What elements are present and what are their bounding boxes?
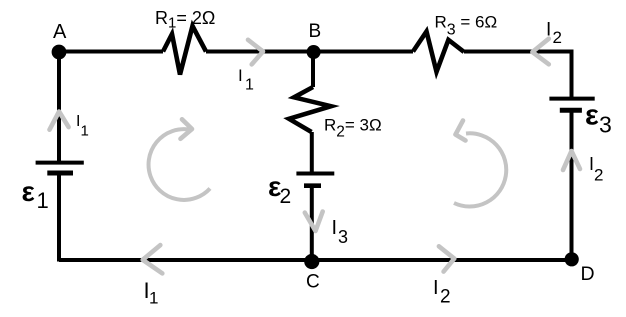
svg-text:C: C (306, 272, 320, 293)
battery E1 long plate (36, 161, 84, 165)
loop arrow left (clockwise arc) (149, 129, 210, 200)
current arrow I3 middle (down-pointing chevron) (305, 212, 323, 232)
current arrow I2 right side (up-pointing chevron) (563, 151, 580, 170)
svg-text:I: I (238, 66, 243, 85)
svg-text:R1= 2Ω: R1= 2Ω (155, 8, 215, 32)
svg-text:I: I (332, 217, 338, 239)
svg-text:A: A (53, 21, 67, 43)
resistor R1 (163, 26, 206, 75)
svg-text:2: 2 (553, 28, 562, 47)
svg-text:R2= 3Ω: R2= 3Ω (324, 116, 382, 141)
svg-text:B: B (309, 21, 322, 42)
svg-text:2: 2 (594, 166, 603, 185)
wire right vertical upper (570, 50, 574, 100)
wire B down to R2 (311, 52, 315, 88)
node C (304, 254, 319, 269)
battery E2 short plate (304, 183, 321, 188)
resistor R2 (289, 87, 331, 132)
svg-text:1: 1 (245, 77, 254, 94)
wire R1 to B (206, 50, 314, 54)
resistor R3 (413, 32, 464, 72)
svg-text:D: D (581, 263, 595, 285)
svg-text:2: 2 (280, 185, 292, 208)
svg-text:1: 1 (149, 289, 158, 308)
wire right vertical lower (570, 110, 574, 259)
current arrow I2 bottom-right (right-pointing chevron) (439, 246, 454, 271)
current arrow I1 top (right-pointing chevron) (248, 40, 263, 65)
battery E1 short plate (47, 171, 73, 176)
svg-text:I: I (546, 20, 551, 41)
wire left vertical upper (57, 52, 61, 163)
battery E3 short plate (560, 108, 582, 113)
loop arrow left head (181, 119, 193, 139)
svg-text:1: 1 (37, 188, 49, 213)
current arrow I2 top-right (left-pointing chevron) (532, 39, 548, 65)
node B (307, 45, 321, 59)
current arrow I1 left side (up-pointing chevron) (50, 112, 69, 130)
wire R2 to battery E2 (310, 132, 314, 174)
wire left vertical lower (57, 173, 61, 262)
wire bottom (59, 258, 572, 262)
svg-text:ε: ε (22, 176, 35, 207)
battery E3 long plate (549, 97, 594, 101)
svg-text:3: 3 (338, 227, 348, 247)
node A (52, 45, 67, 60)
loop arrow right head (456, 121, 466, 141)
battery E2 long plate (296, 172, 334, 176)
svg-text:ε: ε (585, 100, 599, 132)
svg-text:I: I (433, 277, 439, 299)
wire B to R3 (314, 50, 414, 54)
svg-text:3: 3 (599, 111, 612, 137)
wire E2 to C (310, 186, 314, 261)
wire top-left A to R1 (59, 50, 163, 54)
loop arrow right (counterclockwise arc) (454, 133, 506, 206)
svg-text:1: 1 (81, 123, 89, 140)
current arrow I1 bottom-left (left-pointing chevron) (143, 245, 163, 273)
node D (565, 252, 579, 266)
svg-text:2: 2 (440, 287, 451, 308)
wire R3 to top-right corner (464, 50, 574, 54)
svg-text:R3 = 6Ω: R3 = 6Ω (435, 12, 498, 38)
